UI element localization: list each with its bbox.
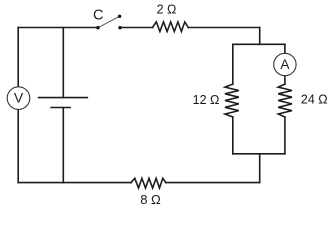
svg-text:8 Ω: 8 Ω — [140, 192, 161, 207]
svg-text:A: A — [280, 57, 289, 72]
resistor R2 12 ohm zigzag — [225, 84, 239, 117]
ammeter U2 circle — [274, 53, 296, 75]
wire right branch below ammeter — [284, 76, 286, 84]
voltmeter U1 circle — [7, 87, 30, 110]
svg-text:12 Ω: 12 Ω — [193, 93, 220, 107]
wire top right horizontal — [188, 27, 259, 29]
switch C left contact dot — [96, 26, 99, 29]
wire right branch upper (to ammeter) — [284, 44, 286, 53]
wire bottom rail of parallel box — [233, 153, 285, 155]
resistor R3 24 ohm zigzag — [278, 84, 292, 117]
wire left branch lower — [232, 117, 234, 154]
wire vertical into parallel section — [259, 28, 261, 45]
battery plate short (negative) — [51, 107, 70, 109]
wire battery branch lower — [62, 108, 64, 183]
resistor R1 2 ohm zigzag — [153, 22, 189, 32]
wire battery branch upper — [62, 28, 64, 98]
battery plate long (positive) — [39, 97, 88, 99]
svg-text:V: V — [14, 90, 24, 106]
wire bottom left horizontal — [18, 182, 131, 184]
svg-text:C: C — [93, 7, 103, 23]
wire left vertical lower (voltmeter to bottom corner) — [17, 109, 19, 182]
switch C blade tip dot — [118, 15, 121, 18]
svg-text:24 Ω: 24 Ω — [301, 92, 328, 106]
wire right branch lower — [284, 117, 286, 154]
wire vertical from parallel box to bottom — [259, 154, 261, 183]
wire top middle (switch to 2-ohm) — [120, 27, 153, 29]
wire top-left horizontal — [18, 27, 98, 29]
wire top rail of parallel box — [233, 43, 285, 45]
wire left vertical upper (top corner to voltmeter) — [17, 28, 19, 87]
wire left branch upper — [232, 44, 234, 84]
switch C blade — [98, 16, 120, 27]
switch C right contact dot — [118, 26, 121, 29]
svg-text:2 Ω: 2 Ω — [157, 3, 177, 17]
resistor R4 8 ohm zigzag — [131, 178, 166, 188]
wire bottom right horizontal — [166, 182, 260, 184]
